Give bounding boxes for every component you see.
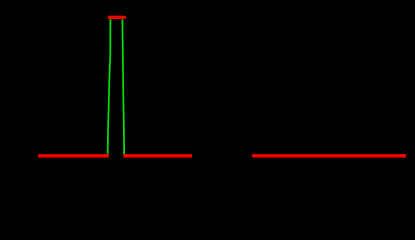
green pulse left edge [108, 19, 111, 154]
green pulse right edge [122, 19, 124, 154]
red rect-function top cap [108, 16, 125, 19]
red baseline segment 3 [252, 154, 406, 157]
red baseline segment 1 [38, 154, 109, 157]
red baseline segment 2 [123, 154, 192, 157]
red cap right-end rounded bump [123, 16, 126, 18]
